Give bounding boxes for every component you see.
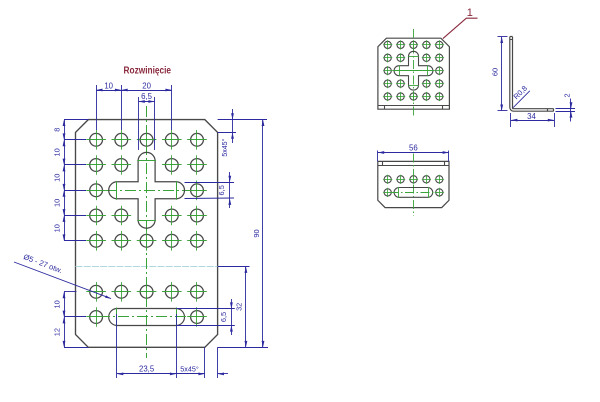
svg-text:10: 10 xyxy=(52,148,61,156)
view1 vertical centerline xyxy=(413,29,415,118)
dim 20 top xyxy=(121,82,172,130)
view1 holes row 3 xyxy=(383,66,444,75)
view1 bend strip xyxy=(378,106,450,110)
svg-text:10: 10 xyxy=(104,82,113,91)
main plate outline xyxy=(76,120,218,348)
title Rozwiniecie xyxy=(124,65,172,77)
dim 60 xyxy=(490,37,507,111)
dim 6,5 top xyxy=(138,92,154,150)
dim 32 right xyxy=(218,267,250,348)
leader 1 xyxy=(443,7,478,39)
view3 holes row B xyxy=(383,188,444,197)
svg-text:6,5: 6,5 xyxy=(141,92,153,101)
svg-text:20: 20 xyxy=(142,82,151,91)
svg-text:1: 1 xyxy=(467,7,473,19)
dim 34 xyxy=(511,112,555,127)
svg-text:90: 90 xyxy=(252,229,261,237)
svg-text:5x45°: 5x45° xyxy=(180,364,199,373)
svg-text:10: 10 xyxy=(52,300,61,308)
left dim 10 and 12 lower xyxy=(52,292,88,348)
view3 bend edge xyxy=(378,161,449,165)
dim 6,5 slot right xyxy=(176,299,235,335)
svg-text:8: 8 xyxy=(52,128,61,132)
svg-text:Rozwinięcie: Rozwinięcie xyxy=(124,65,172,77)
view3 slot centerline xyxy=(390,187,438,198)
dim 6,5 cross right xyxy=(185,172,235,208)
holes row 3 xyxy=(86,181,207,201)
view3 holes row A xyxy=(383,175,444,184)
side view profile xyxy=(510,37,554,112)
left dim chain 8-10-10-10-10 xyxy=(52,120,88,241)
svg-text:10: 10 xyxy=(52,224,61,232)
view1 outline xyxy=(378,38,450,109)
view1 cross centermarks xyxy=(393,57,435,86)
dim 90 right xyxy=(218,120,268,348)
view1 holes row 4 xyxy=(383,79,444,88)
view3 vertical centerline xyxy=(413,154,415,217)
dim 56 xyxy=(378,144,450,162)
svg-text:60: 60 xyxy=(490,68,499,76)
dim 2 xyxy=(556,93,576,121)
svg-text:10: 10 xyxy=(52,174,61,182)
svg-text:23,5: 23,5 xyxy=(139,365,155,374)
holes row 1 xyxy=(86,130,207,150)
svg-text:2: 2 xyxy=(562,93,571,97)
svg-text:56: 56 xyxy=(409,144,418,153)
bottom slot xyxy=(109,309,185,326)
svg-text:12: 12 xyxy=(52,328,61,336)
leader Ø5 - 27 otw. xyxy=(14,252,111,298)
dim 23,5 bottom xyxy=(117,314,177,378)
holes row 2 xyxy=(86,155,207,175)
svg-text:6,5: 6,5 xyxy=(219,312,228,322)
svg-text:10: 10 xyxy=(52,199,61,207)
cross cap centermarks xyxy=(117,161,177,221)
cross horizontal centerline xyxy=(87,190,206,192)
cross slot xyxy=(109,152,185,228)
view1 holes row 1 xyxy=(383,40,444,49)
view3 outline xyxy=(378,161,449,207)
holes row 7 xyxy=(86,307,207,327)
bottom slot centerline xyxy=(99,308,194,327)
dim 5x45 top right xyxy=(218,109,267,157)
holes row 5 xyxy=(86,231,207,251)
holes row 6 xyxy=(86,282,207,302)
view3 slot xyxy=(394,188,433,198)
dim 5x45 bottom xyxy=(176,347,228,378)
view1 holes row 5 xyxy=(383,92,444,101)
view1 holes row 2 xyxy=(383,53,444,62)
leader R0,8 xyxy=(512,84,530,108)
dim 10 top xyxy=(96,82,121,130)
svg-text:5x45°: 5x45° xyxy=(221,138,229,156)
main vertical centerline xyxy=(146,106,148,358)
svg-text:34: 34 xyxy=(527,112,536,121)
view1 cross slot xyxy=(394,51,433,90)
svg-text:32: 32 xyxy=(234,303,243,311)
svg-text:6,5: 6,5 xyxy=(217,185,226,195)
bend line xyxy=(76,266,218,268)
holes row 4 xyxy=(86,206,207,226)
